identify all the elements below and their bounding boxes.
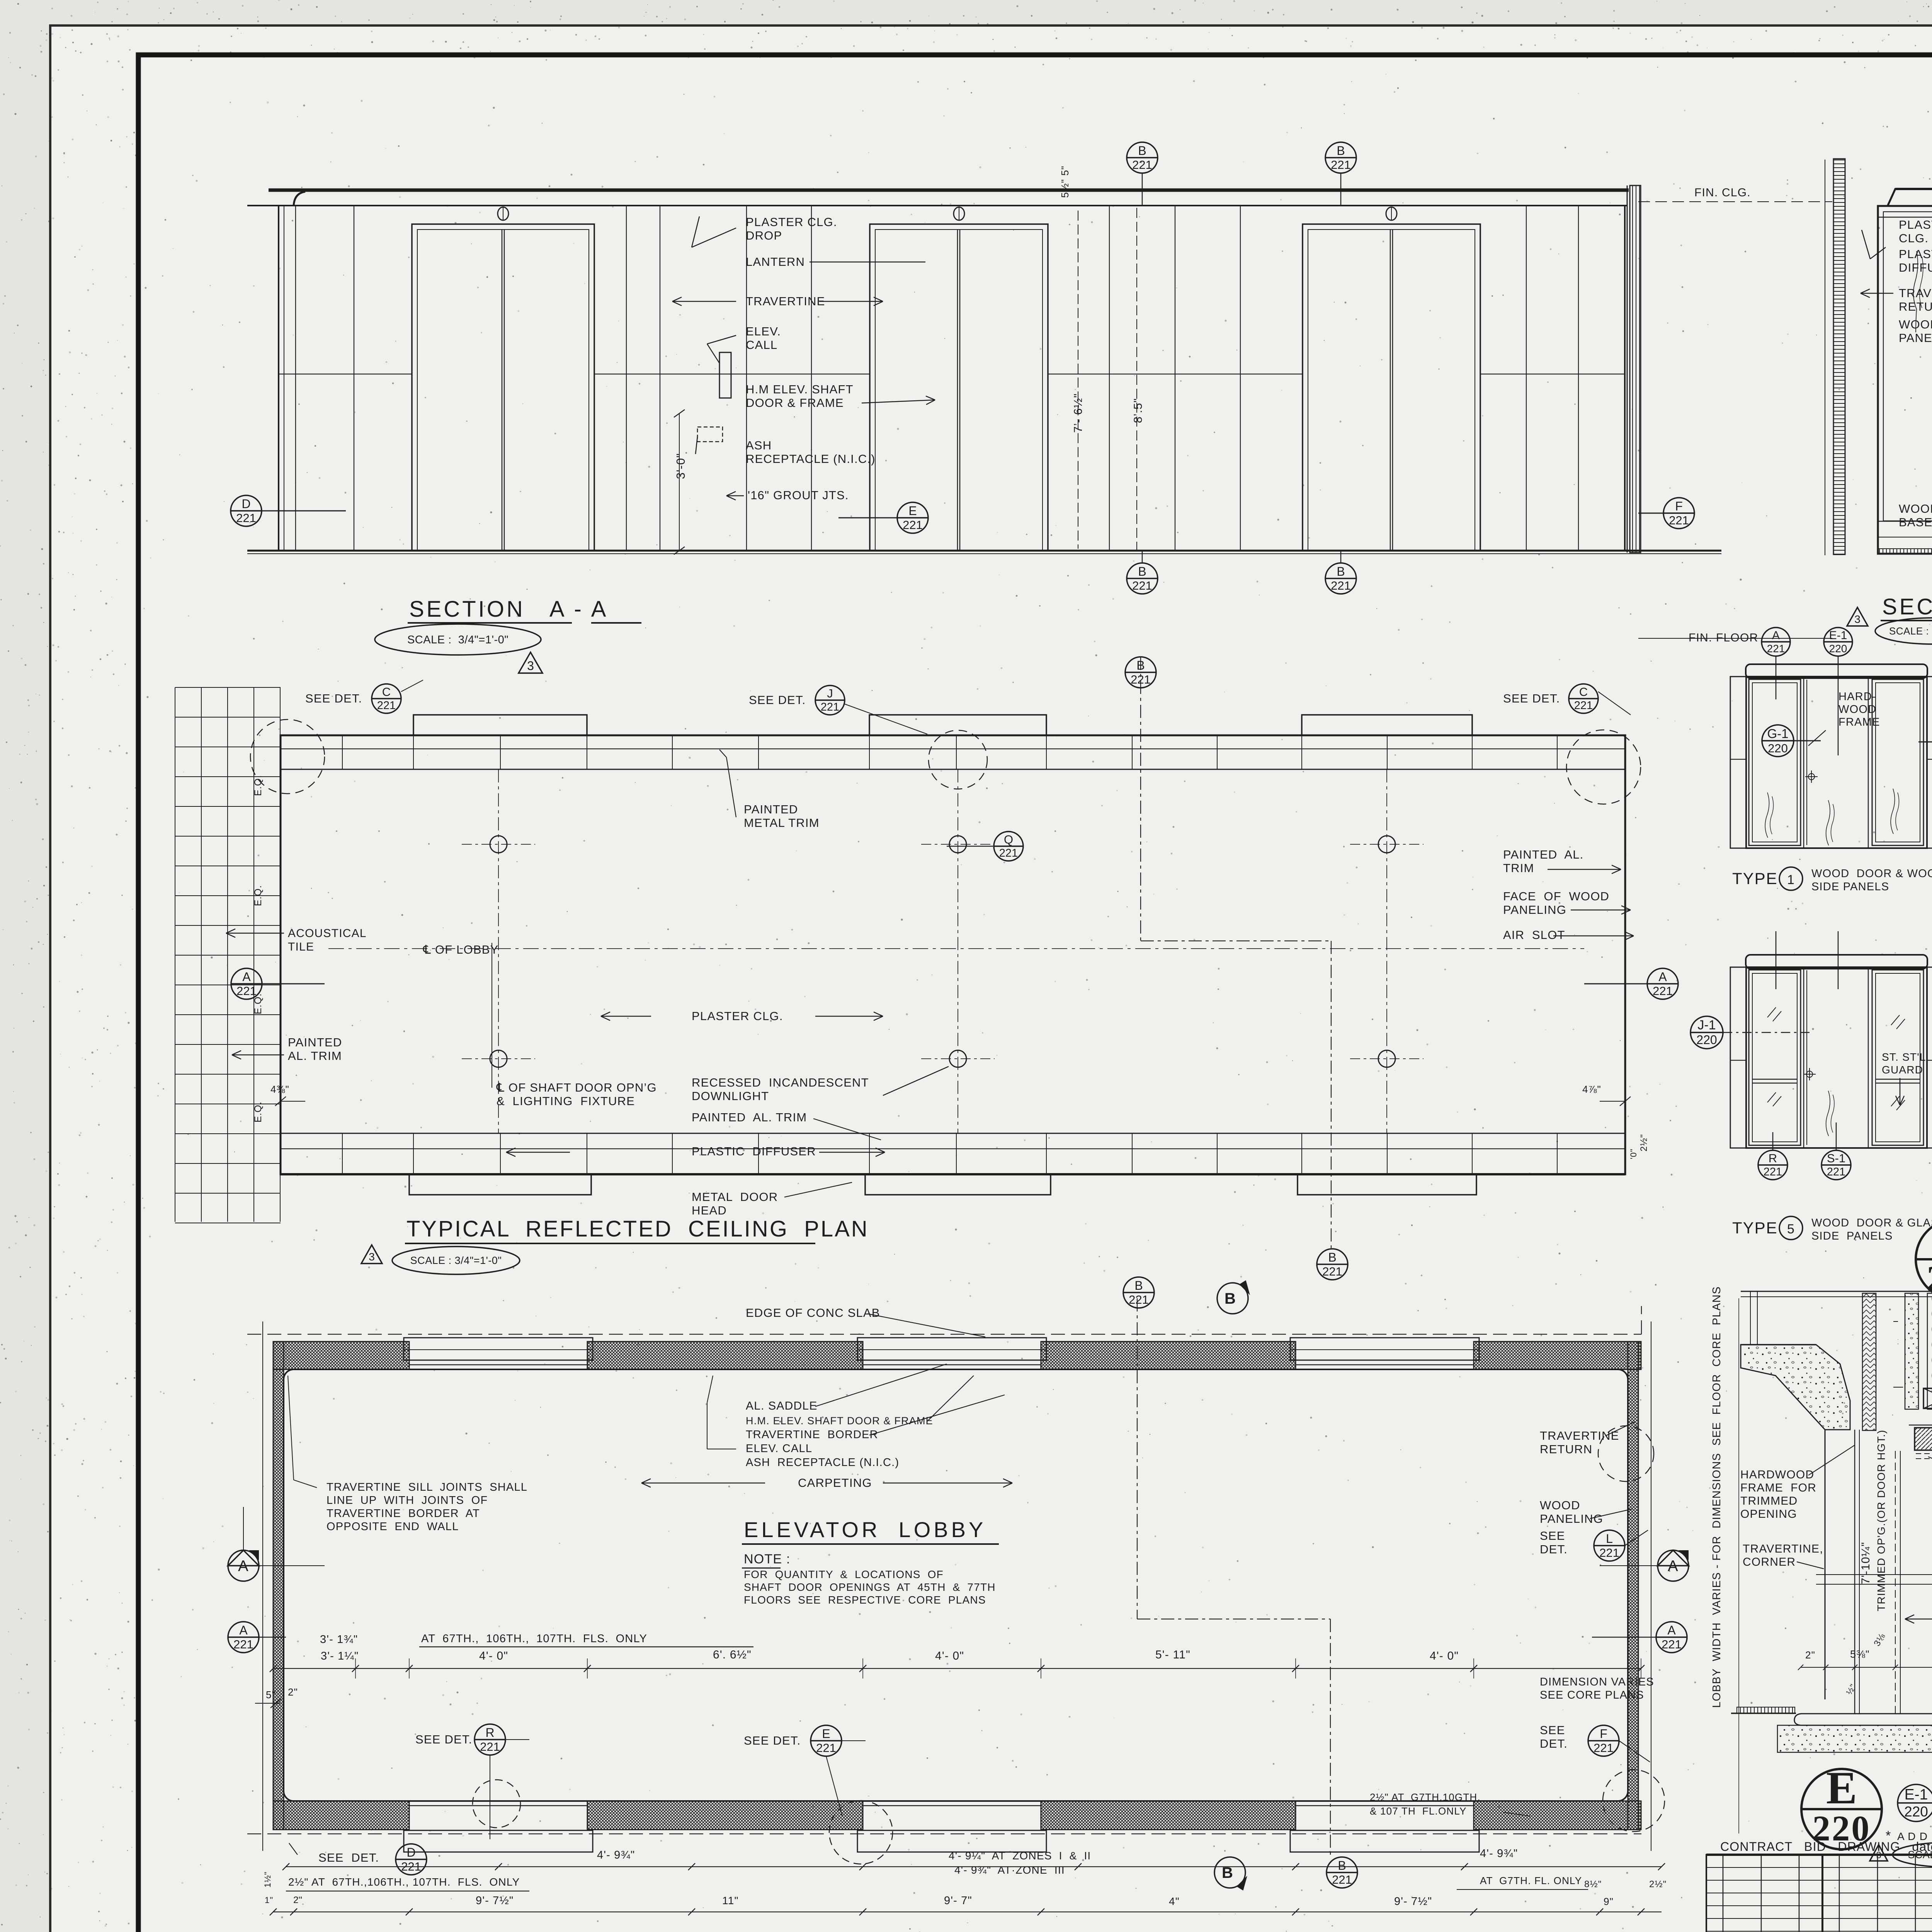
svg-text:PAINTED: PAINTED bbox=[288, 1036, 342, 1049]
svg-text:METAL TRIM: METAL TRIM bbox=[744, 816, 820, 830]
svg-text:TRAVERTINE BORDER AT: TRAVERTINE BORDER AT bbox=[327, 1507, 480, 1520]
svg-text:HARD-: HARD- bbox=[1838, 690, 1876, 703]
svg-text:221: 221 bbox=[1574, 699, 1593, 712]
svg-text:TYPE: TYPE bbox=[1732, 869, 1778, 888]
svg-text:SEE: SEE bbox=[1540, 1723, 1565, 1737]
svg-text:C: C bbox=[1579, 685, 1588, 699]
svg-text:221: 221 bbox=[1669, 514, 1689, 527]
svg-text:SEE DET.: SEE DET. bbox=[1503, 692, 1560, 705]
svg-text:8½": 8½" bbox=[1584, 1879, 1602, 1889]
svg-text:4'- 9¾" AT·ZONE III: 4'- 9¾" AT·ZONE III bbox=[954, 1864, 1065, 1876]
svg-text:Q: Q bbox=[1004, 833, 1013, 846]
svg-text:E.Q.: E.Q. bbox=[253, 885, 264, 906]
svg-text:3: 3 bbox=[1854, 613, 1861, 625]
svg-text:4⅜": 4⅜" bbox=[270, 1083, 289, 1095]
svg-text:D: D bbox=[241, 497, 250, 511]
svg-text:& 107 TH FL.ONLY: & 107 TH FL.ONLY bbox=[1370, 1805, 1467, 1817]
svg-text:SEE DET.: SEE DET. bbox=[415, 1733, 472, 1746]
svg-text:℄ OF SHAFT DOOR OPN’G: ℄ OF SHAFT DOOR OPN’G bbox=[496, 1081, 657, 1094]
svg-text:PLASTER: PLASTER bbox=[1899, 218, 1932, 231]
svg-text:DROP: DROP bbox=[746, 229, 782, 242]
svg-text:'0": '0" bbox=[1629, 1148, 1638, 1159]
svg-text:B: B bbox=[1138, 144, 1146, 158]
svg-text:ST. ST'L: ST. ST'L bbox=[1882, 1051, 1926, 1063]
svg-text:TRAVERTINE SILL JOINTS SHAL: TRAVERTINE SILL JOINTS SHALL bbox=[327, 1481, 527, 1493]
svg-text:3'- 1¼": 3'- 1¼" bbox=[321, 1650, 359, 1662]
svg-text:SIDE PANELS: SIDE PANELS bbox=[1811, 1230, 1893, 1242]
svg-text:5": 5" bbox=[266, 1689, 276, 1701]
svg-text:PANELING: PANELING bbox=[1540, 1512, 1603, 1526]
svg-text:2½" AT 67TH.,106TH., 107TH.: 2½" AT 67TH.,106TH., 107TH. FLS. ONLY bbox=[288, 1876, 520, 1888]
svg-text:CORNER: CORNER bbox=[1743, 1556, 1796, 1568]
svg-text:FIN. FLOOR: FIN. FLOOR bbox=[1689, 631, 1758, 644]
svg-text:E.Q.: E.Q. bbox=[253, 775, 264, 796]
svg-text:220: 220 bbox=[1768, 742, 1788, 755]
svg-text:221: 221 bbox=[1331, 579, 1351, 592]
svg-text:A: A bbox=[239, 1623, 248, 1637]
svg-text:7'-10¼": 7'-10¼" bbox=[1859, 1542, 1872, 1584]
svg-text:G-1: G-1 bbox=[1767, 726, 1788, 741]
svg-text:221: 221 bbox=[816, 1741, 836, 1755]
svg-text:E: E bbox=[1826, 1762, 1857, 1813]
svg-text:221: 221 bbox=[1662, 1638, 1682, 1651]
svg-text:B: B bbox=[1134, 1279, 1143, 1293]
svg-text:3'-0": 3'-0" bbox=[674, 453, 687, 479]
svg-text:LANTERN: LANTERN bbox=[746, 255, 805, 269]
svg-text:4'- 9¼" AT ZONES I & II: 4'- 9¼" AT ZONES I & II bbox=[949, 1850, 1091, 1862]
svg-text:221: 221 bbox=[1132, 579, 1152, 592]
svg-text:B: B bbox=[1337, 144, 1345, 158]
svg-text:SCALE : 3/4"=1'-0": SCALE : 3/4"=1'-0" bbox=[410, 1255, 502, 1266]
svg-text:TRIMMED OP'G.(OR DOOR HGT.): TRIMMED OP'G.(OR DOOR HGT.) bbox=[1875, 1430, 1887, 1611]
svg-text:FRAME: FRAME bbox=[1838, 716, 1880, 728]
svg-text:3'- 1¾": 3'- 1¾" bbox=[320, 1633, 358, 1646]
svg-text:1": 1" bbox=[265, 1895, 273, 1905]
svg-text:DET.: DET. bbox=[1540, 1737, 1568, 1750]
svg-text:PAINTED AL. TRIM: PAINTED AL. TRIM bbox=[692, 1111, 807, 1124]
svg-text:5'- 11": 5'- 11" bbox=[1155, 1648, 1190, 1661]
svg-text:221: 221 bbox=[377, 699, 396, 712]
svg-text:SEE DET.: SEE DET. bbox=[318, 1851, 379, 1864]
svg-text:ACOUSTICAL: ACOUSTICAL bbox=[288, 927, 367, 940]
svg-text:B: B bbox=[1328, 1250, 1336, 1264]
svg-text:PAINTED AL.: PAINTED AL. bbox=[1503, 848, 1584, 861]
svg-text:AL. SADDLE: AL. SADDLE bbox=[746, 1400, 817, 1412]
svg-text:FIN. CLG.: FIN. CLG. bbox=[1694, 186, 1751, 199]
svg-text:9'- 7½": 9'- 7½" bbox=[476, 1895, 514, 1907]
svg-text:TYPE: TYPE bbox=[1732, 1219, 1778, 1237]
svg-text:CLG. DROP: CLG. DROP bbox=[1899, 231, 1932, 245]
svg-text:J: J bbox=[827, 687, 833, 700]
svg-text:C: C bbox=[382, 685, 391, 699]
svg-text:OPENING: OPENING bbox=[1740, 1508, 1797, 1520]
svg-text:221: 221 bbox=[1764, 1166, 1782, 1178]
svg-text:4⅞": 4⅞" bbox=[1582, 1083, 1601, 1095]
svg-text:B: B bbox=[1225, 1290, 1236, 1307]
svg-text:4'- 9¾": 4'- 9¾" bbox=[1480, 1847, 1518, 1860]
svg-text:& LIGHTING FIXTURE: & LIGHTING FIXTURE bbox=[497, 1094, 635, 1108]
svg-text:E: E bbox=[908, 504, 917, 518]
svg-text:221: 221 bbox=[1131, 673, 1151, 686]
svg-text:A: A bbox=[1667, 1623, 1676, 1637]
svg-text:9'- 7½": 9'- 7½" bbox=[1394, 1895, 1432, 1908]
svg-text:221: 221 bbox=[480, 1740, 500, 1753]
svg-text:220: 220 bbox=[1927, 1259, 1932, 1299]
svg-text:221: 221 bbox=[903, 518, 923, 532]
svg-text:A: A bbox=[242, 970, 251, 984]
svg-text:SECTION A - A: SECTION A - A bbox=[409, 597, 608, 622]
svg-text:4'- 0": 4'- 0" bbox=[935, 1650, 964, 1662]
svg-text:DIFFUSER: DIFFUSER bbox=[1899, 261, 1932, 274]
svg-text:F: F bbox=[1675, 499, 1683, 513]
svg-text:2½": 2½" bbox=[1639, 1134, 1649, 1151]
svg-text:9": 9" bbox=[1604, 1896, 1614, 1907]
svg-text:220: 220 bbox=[1829, 643, 1847, 655]
svg-text:LINE UP WITH JOINTS OF: LINE UP WITH JOINTS OF bbox=[327, 1494, 488, 1507]
svg-text:WOOD: WOOD bbox=[1540, 1498, 1580, 1512]
svg-text:CARPETING: CARPETING bbox=[798, 1476, 872, 1490]
svg-text:METAL DOOR: METAL DOOR bbox=[692, 1190, 778, 1204]
svg-text:221: 221 bbox=[1332, 1873, 1352, 1886]
svg-text:220: 220 bbox=[1904, 1804, 1928, 1820]
svg-text:2": 2" bbox=[1805, 1649, 1815, 1661]
svg-text:221: 221 bbox=[401, 1860, 421, 1873]
svg-text:TRAVERTINE: TRAVERTINE bbox=[1540, 1429, 1619, 1442]
svg-text:℄ OF LOBBY: ℄ OF LOBBY bbox=[423, 943, 499, 956]
svg-text:221: 221 bbox=[1599, 1546, 1619, 1560]
svg-text:WOOD DOOR & GLASS: WOOD DOOR & GLASS bbox=[1811, 1217, 1932, 1229]
svg-text:221: 221 bbox=[233, 1638, 253, 1651]
svg-text:221: 221 bbox=[1594, 1741, 1614, 1755]
svg-text:5⅜": 5⅜" bbox=[1850, 1648, 1870, 1660]
svg-text:SECTION B - B: SECTION B - B bbox=[1882, 594, 1932, 619]
svg-text:SHAFT DOOR OPENINGS AT 45T: SHAFT DOOR OPENINGS AT 45TH & 77TH bbox=[744, 1581, 996, 1593]
svg-text:RECESSED INCANDESCENT: RECESSED INCANDESCENT bbox=[692, 1076, 869, 1089]
svg-text:4'- 0": 4'- 0" bbox=[1430, 1650, 1459, 1662]
svg-text:PLASTER CLG.: PLASTER CLG. bbox=[692, 1009, 783, 1023]
svg-text:WOOD DOOR & WOOD: WOOD DOOR & WOOD bbox=[1811, 867, 1932, 880]
svg-text:SEE CORE PLANS: SEE CORE PLANS bbox=[1540, 1689, 1644, 1701]
svg-text:PANELING: PANELING bbox=[1503, 903, 1566, 917]
svg-text:ELEVATOR LOBBY: ELEVATOR LOBBY bbox=[744, 1517, 986, 1542]
svg-text:PANELING: PANELING bbox=[1899, 331, 1932, 345]
svg-text:B: B bbox=[1337, 565, 1345, 578]
svg-text:E.Q.: E.Q. bbox=[253, 993, 264, 1014]
svg-text:TRIMMED: TRIMMED bbox=[1740, 1495, 1798, 1507]
svg-text:HEAD: HEAD bbox=[692, 1204, 727, 1217]
svg-text:R: R bbox=[1769, 1151, 1777, 1165]
svg-text:3: 3 bbox=[527, 659, 534, 673]
svg-text:ELEV.: ELEV. bbox=[746, 325, 781, 338]
svg-text:PLASTER CLG.: PLASTER CLG. bbox=[746, 215, 837, 229]
svg-text:E.Q.: E.Q. bbox=[253, 1101, 264, 1122]
svg-text:H.M ELEV. SHAFT: H.M ELEV. SHAFT bbox=[746, 383, 854, 396]
svg-text:WOOD: WOOD bbox=[1899, 502, 1932, 515]
svg-text:2½" AT G7TH,10GTH,: 2½" AT G7TH,10GTH, bbox=[1370, 1791, 1481, 1803]
svg-text:11": 11" bbox=[722, 1895, 739, 1906]
svg-text:2": 2" bbox=[288, 1686, 298, 1698]
svg-text:221: 221 bbox=[1767, 643, 1785, 655]
svg-text:TRAVERTINE: TRAVERTINE bbox=[1899, 286, 1932, 300]
svg-text:CALL: CALL bbox=[746, 338, 777, 352]
svg-text:SIDE PANELS: SIDE PANELS bbox=[1811, 881, 1889, 893]
svg-text:221: 221 bbox=[236, 511, 256, 525]
svg-text:7’- 6½": 7’- 6½" bbox=[1072, 393, 1085, 433]
svg-text:BASE: BASE bbox=[1899, 515, 1932, 529]
svg-text:5: 5 bbox=[1787, 1222, 1795, 1236]
svg-text:221: 221 bbox=[1653, 984, 1673, 998]
svg-text:DIMENSION VARIES: DIMENSION VARIES bbox=[1540, 1676, 1654, 1688]
svg-text:TRAVERTINE,: TRAVERTINE, bbox=[1743, 1543, 1823, 1555]
svg-text:DOWNLIGHT: DOWNLIGHT bbox=[692, 1089, 769, 1103]
svg-text:CONTRACT BID DRAWING dat: CONTRACT BID DRAWING date 2-9-68 Tower’A… bbox=[1720, 1840, 1932, 1854]
svg-text:SCALE : 3/4"=1'-0": SCALE : 3/4"=1'-0" bbox=[407, 634, 509, 646]
svg-text:221: 221 bbox=[1331, 158, 1351, 172]
svg-text:9'- 7": 9'- 7" bbox=[944, 1895, 972, 1907]
svg-text:E: E bbox=[822, 1727, 830, 1741]
svg-text:TRIM: TRIM bbox=[1503, 861, 1534, 875]
svg-text:GUARD: GUARD bbox=[1882, 1064, 1923, 1076]
svg-text:A: A bbox=[1658, 970, 1667, 984]
svg-text:HARDWOOD: HARDWOOD bbox=[1740, 1468, 1814, 1481]
svg-text:LOBBY WIDTH VARIES - FOR DI: LOBBY WIDTH VARIES - FOR DIMENSIONS SEE … bbox=[1711, 1286, 1723, 1708]
svg-text:4'- 0": 4'- 0" bbox=[479, 1650, 508, 1662]
svg-text:SEE DET.: SEE DET. bbox=[749, 693, 806, 707]
svg-text:4'- 9¾": 4'- 9¾" bbox=[597, 1849, 635, 1861]
svg-text:6'. 6½": 6'. 6½" bbox=[713, 1648, 752, 1661]
svg-text:B: B bbox=[1338, 1859, 1346, 1872]
svg-text:221: 221 bbox=[1322, 1265, 1342, 1278]
svg-text:221: 221 bbox=[999, 847, 1018, 859]
svg-text:FOR QUANTITY & LOCATIONS O: FOR QUANTITY & LOCATIONS OF bbox=[744, 1568, 944, 1580]
svg-text:AT G7TH. FL. ONLY: AT G7TH. FL. ONLY bbox=[1480, 1875, 1582, 1886]
svg-text:A: A bbox=[1772, 629, 1780, 642]
svg-text:DET.: DET. bbox=[1540, 1543, 1568, 1556]
svg-text:AT 67TH., 106TH., 107TH. F: AT 67TH., 106TH., 107TH. FLS. ONLY bbox=[421, 1633, 647, 1645]
svg-text:FACE OF WOOD: FACE OF WOOD bbox=[1503, 889, 1609, 903]
svg-text:SEE: SEE bbox=[1540, 1529, 1565, 1543]
svg-text:S-1: S-1 bbox=[1827, 1151, 1845, 1165]
svg-text:PAINTED: PAINTED bbox=[744, 803, 798, 816]
svg-text:SCALE : 3/4"=1'-0": SCALE : 3/4"=1'-0" bbox=[1889, 625, 1932, 637]
svg-text:FRAME FOR: FRAME FOR bbox=[1740, 1481, 1816, 1494]
svg-text:5½" 5": 5½" 5" bbox=[1059, 166, 1071, 198]
svg-text:ELEV. CALL: ELEV. CALL bbox=[746, 1442, 812, 1455]
svg-text:PLASTIC: PLASTIC bbox=[1899, 247, 1932, 261]
svg-text:'16" GROUT JTS.: '16" GROUT JTS. bbox=[748, 488, 849, 502]
svg-text:F: F bbox=[1600, 1727, 1607, 1741]
svg-text:WOOD: WOOD bbox=[1899, 318, 1932, 331]
svg-text:8’.5": 8’.5" bbox=[1132, 398, 1145, 423]
svg-text:DOOR & FRAME: DOOR & FRAME bbox=[746, 396, 844, 410]
svg-text:221: 221 bbox=[1132, 158, 1152, 172]
svg-text:220: 220 bbox=[1696, 1033, 1717, 1047]
svg-text:L: L bbox=[1606, 1532, 1613, 1546]
svg-text:EDGE OF CONC SLAB: EDGE OF CONC SLAB bbox=[746, 1306, 880, 1320]
svg-text:4": 4" bbox=[1169, 1895, 1180, 1907]
svg-text:ASH RECEPTACLE (N.I.C.): ASH RECEPTACLE (N.I.C.) bbox=[746, 1456, 899, 1469]
svg-text:FLOORS SEE RESPECTIVE CORE: FLOORS SEE RESPECTIVE CORE PLANS bbox=[744, 1594, 986, 1606]
svg-text:D: D bbox=[406, 1845, 415, 1859]
svg-text:221: 221 bbox=[821, 701, 839, 713]
svg-text:NOTE :: NOTE : bbox=[744, 1552, 791, 1566]
svg-text:221: 221 bbox=[1827, 1166, 1845, 1178]
svg-text:B: B bbox=[1138, 565, 1146, 578]
svg-text:OPPOSITE END WALL: OPPOSITE END WALL bbox=[327, 1520, 459, 1533]
svg-text:B: B bbox=[1136, 658, 1145, 672]
svg-text:TRAVERTINE BORDER: TRAVERTINE BORDER bbox=[746, 1429, 878, 1441]
svg-text:J-1: J-1 bbox=[1697, 1018, 1716, 1032]
svg-text:1½": 1½" bbox=[263, 1871, 272, 1888]
svg-text:WOOD: WOOD bbox=[1838, 703, 1876, 716]
svg-text:2½": 2½" bbox=[1649, 1879, 1667, 1889]
svg-text:ASH: ASH bbox=[746, 439, 772, 452]
svg-text:TYPICAL REFLECTED CEILING P: TYPICAL REFLECTED CEILING PLAN bbox=[406, 1216, 869, 1242]
svg-text:RETURN: RETURN bbox=[1899, 300, 1932, 313]
svg-text:1: 1 bbox=[1787, 872, 1795, 887]
svg-text:SEE DET.: SEE DET. bbox=[744, 1734, 801, 1747]
svg-text:AL. TRIM: AL. TRIM bbox=[288, 1049, 342, 1063]
svg-text:RETURN: RETURN bbox=[1540, 1442, 1592, 1456]
svg-text:TRAVERTINE: TRAVERTINE bbox=[746, 294, 825, 308]
svg-text:3: 3 bbox=[369, 1251, 375, 1263]
svg-text:SEE DET.: SEE DET. bbox=[305, 692, 362, 705]
svg-text:E-1: E-1 bbox=[1905, 1786, 1928, 1803]
svg-text:AIR SLOT: AIR SLOT bbox=[1503, 928, 1565, 942]
svg-text:TILE: TILE bbox=[288, 940, 314, 953]
svg-text:E-1: E-1 bbox=[1829, 629, 1847, 642]
svg-text:R: R bbox=[485, 1726, 494, 1740]
svg-text:PLASTIC DIFFUSER: PLASTIC DIFFUSER bbox=[692, 1145, 816, 1158]
svg-text:RECEPTACLE (N.I.C.): RECEPTACLE (N.I.C.) bbox=[746, 452, 876, 466]
svg-text:2": 2" bbox=[293, 1895, 303, 1905]
svg-text:221: 221 bbox=[1129, 1293, 1149, 1306]
